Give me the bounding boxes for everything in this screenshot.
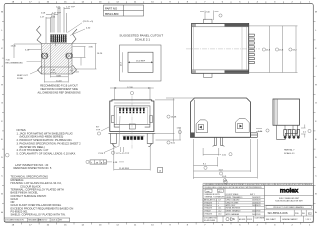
svg-text:13.48: 13.48	[171, 117, 177, 119]
svg-text:J: J	[315, 66, 316, 68]
svg-text:±: ±	[218, 205, 219, 207]
svg-text:±0.1: ±0.1	[218, 208, 221, 210]
svg-text:1 OF 1: 1 OF 1	[306, 219, 311, 221]
svg-text:2009/04/23: 2009/04/23	[252, 202, 261, 204]
svg-text:TYP: TYP	[96, 129, 101, 131]
svg-text:SHT 1: SHT 1	[250, 194, 255, 196]
svg-text:PRODUCT CUSTOMER DRAWING: PRODUCT CUSTOMER DRAWING	[273, 206, 304, 209]
svg-text:2009/04/23: 2009/04/23	[252, 205, 261, 207]
svg-text:DOCUMENT NO: DOCUMENT NO	[204, 218, 217, 220]
svg-text:(25.25 ±.5): (25.25 ±.5)	[83, 21, 94, 23]
svg-text:DRWN: GERARDO: DRWN: GERARDO	[226, 209, 241, 212]
svg-text:1.27 TYP: 1.27 TYP	[66, 7, 75, 9]
svg-text:POS 1: POS 1	[99, 153, 106, 155]
svg-text:±0.2: ±0.2	[218, 210, 221, 212]
svg-text:PARTIAL 7: PARTIAL 7	[284, 149, 295, 152]
svg-text:G: G	[315, 103, 317, 105]
svg-text:±0.1: ±0.1	[218, 191, 221, 193]
svg-text:1.0°: 1.0°	[218, 200, 221, 202]
svg-text:DOCUMENT STATUS P1: DOCUMENT STATUS P1	[5, 219, 24, 222]
svg-text:±: ±	[218, 202, 219, 204]
svg-text:4 PLACES: 4 PLACES	[204, 201, 213, 204]
svg-text:(MOLEX 85043 AND 48556 SERIES): (MOLEX 85043 AND 48556 SERIES)	[20, 135, 64, 139]
svg-text:90°: 90°	[96, 127, 99, 129]
svg-text:0 PLACES: 0 PLACES	[204, 212, 213, 215]
svg-text:±0.4: ±0.4	[218, 213, 221, 215]
svg-text:SD-85513-006: SD-85513-006	[267, 211, 287, 215]
svg-text:3. PACKAGING SPECIFICATION: PK: 3. PACKAGING SPECIFICATION: PK-85122 SHE…	[17, 141, 82, 145]
svg-text:GENERAL MARKET: GENERAL MARKET	[282, 218, 298, 221]
svg-text:2009/04/23: 2009/04/23	[252, 200, 261, 202]
svg-text:2009/07/17: 2009/07/17	[39, 220, 48, 222]
svg-text:DO NOT SCALE: DO NOT SCALE	[226, 193, 239, 196]
svg-text:3 PLACES: 3 PLACES	[204, 204, 213, 207]
svg-text:2002/07/09: 2002/07/09	[252, 210, 261, 212]
svg-text:85513-880: 85513-880	[105, 12, 119, 16]
svg-text:PART NO: PART NO	[105, 6, 118, 10]
svg-text:CHKD: LIZALDEZ: CHKD: LIZALDEZ	[226, 199, 240, 202]
svg-text:CHKD: FLORES: CHKD: FLORES	[226, 202, 239, 204]
svg-text:1.27 ±.15 TYP: 1.27 ±.15 TYP	[116, 153, 130, 155]
svg-text:85513: 85513	[247, 219, 252, 221]
svg-text:SHIELD: COPPER ALLOY PLATED WI: SHIELD: COPPER ALLOY PLATED WITH TIN.	[11, 213, 66, 217]
svg-text:APPR: RUIZ: APPR: RUIZ	[226, 204, 235, 207]
svg-text:16.26: 16.26	[97, 53, 103, 55]
svg-text:A3-SIZE: A3-SIZE	[239, 218, 246, 221]
svg-text:NOTES: NOTES	[17, 128, 26, 132]
svg-text:2 PLACES: 2 PLACES	[204, 207, 213, 210]
svg-text:INITIAL REVISION:: INITIAL REVISION:	[226, 207, 241, 210]
svg-text:REMOVED INSPECTION NO. 5: REMOVED INSPECTION NO. 5	[14, 166, 52, 170]
svg-text:E2: E2	[308, 211, 312, 215]
svg-text:CUSTOMER: CUSTOMER	[255, 218, 265, 220]
svg-text:5. COPLANARITY OF SIGNAL LEADS: 5. COPLANARITY OF SIGNAL LEADS: 0.10 MAX…	[17, 152, 77, 156]
svg-text:J: J	[1, 66, 2, 68]
svg-text:mm: mm	[206, 191, 210, 193]
svg-text:17.38: 17.38	[127, 87, 133, 89]
svg-text:ANGULAR TOL ±: ANGULAR TOL ±	[204, 199, 217, 202]
svg-text:2009/04/22: 2009/04/22	[252, 197, 261, 199]
svg-text:SCALE 2:1: SCALE 2:1	[135, 37, 151, 41]
svg-text:1.27 TYP: 1.27 TYP	[52, 13, 61, 15]
svg-text:11.43: 11.43	[56, 81, 62, 83]
svg-text:G: G	[1, 103, 3, 105]
svg-text:16.0 REF: 16.0 REF	[136, 60, 146, 62]
svg-text:ALL DIMENSIONS REF DIMENSIONS: ALL DIMENSIONS REF DIMENSIONS	[37, 91, 80, 94]
svg-text:RJ45 MODULAR JACK 8/8 SMT: RJ45 MODULAR JACK 8/8 SMT	[275, 200, 303, 203]
svg-text:11.43 REF: 11.43 REF	[119, 168, 130, 170]
svg-text:DRWN: TWFAJARDO: DRWN: TWFAJARDO	[226, 196, 243, 199]
svg-text:TECHNICAL SPECIFICATIONS: TECHNICAL SPECIFICATIONS	[11, 175, 49, 179]
svg-text:GENERAL TOLERANCES: GENERAL TOLERANCES	[205, 195, 226, 198]
svg-text:16:09:11: 16:09:11	[51, 220, 58, 222]
svg-text:2002/07/09: 2002/07/09	[252, 214, 261, 216]
svg-text:THIS DRAWING CONTAINS INFORMAT: THIS DRAWING CONTAINS INFORMATION THAT I…	[205, 183, 313, 186]
svg-text:molex: molex	[280, 188, 299, 195]
svg-text:M: M	[315, 12, 317, 14]
svg-text:1 PLACE: 1 PLACE	[204, 209, 212, 212]
svg-text:SD-85513-888: SD-85513-888	[204, 220, 215, 222]
svg-text:KEEP OUT: KEEP OUT	[17, 75, 28, 77]
svg-text:ZONE: ZONE	[17, 78, 24, 80]
svg-text:SEE CHART: SEE CHART	[266, 218, 276, 221]
svg-text:SHT: SHT	[59, 220, 62, 222]
svg-text:4. P.C.B THICKNESS: 1.07: 4. P.C.B THICKNESS: 1.07	[17, 148, 49, 152]
svg-text:APPR: BARAJAS: APPR: BARAJAS	[226, 213, 240, 216]
svg-text:13.40: 13.40	[11, 46, 17, 48]
svg-text:M: M	[1, 12, 3, 14]
svg-text:RECOMMENDED: RECOMMENDED	[6, 63, 24, 65]
svg-text:SCALE 4:1: SCALE 4:1	[284, 152, 295, 155]
